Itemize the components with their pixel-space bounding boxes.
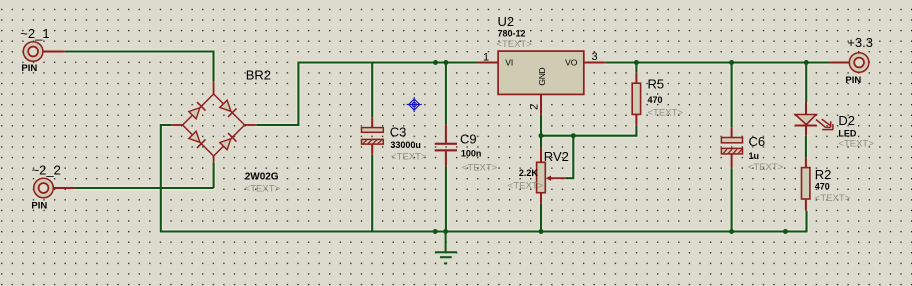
svg-text:<TEXT>: <TEXT> [648, 108, 684, 119]
svg-text:C3: C3 [390, 124, 407, 139]
svg-text:3: 3 [592, 51, 598, 63]
wire [65, 52, 214, 82]
svg-text:+3.3: +3.3 [847, 35, 873, 50]
svg-text:1: 1 [483, 52, 489, 64]
svg-text:1u: 1u [749, 151, 760, 161]
capacitor C9 [435, 124, 457, 166]
svg-text:C6: C6 [749, 134, 766, 149]
svg-text:<TEXT>: <TEXT> [245, 184, 281, 195]
svg-text:2.2K: 2.2K [519, 168, 539, 178]
wire [161, 125, 807, 232]
svg-text:<TEXT>: <TEXT> [496, 39, 532, 50]
pin ~2_2 [34, 178, 75, 198]
svg-text:100n: 100n [461, 148, 482, 158]
wire [541, 126, 636, 136]
wire [213, 162, 215, 188]
ground [435, 232, 457, 264]
resistor R5 [632, 72, 640, 125]
LED D2 [795, 102, 833, 136]
svg-text:C9: C9 [460, 132, 477, 147]
svg-text:780-12: 780-12 [498, 29, 526, 39]
svg-text:~2_1: ~2_1 [20, 26, 49, 41]
svg-text:<TEXT>: <TEXT> [508, 181, 544, 192]
wire [805, 63, 807, 103]
wire [445, 63, 447, 125]
wire [371, 63, 373, 118]
svg-text:<TEXT>: <TEXT> [462, 163, 498, 174]
junction [443, 229, 448, 234]
potentiometer RV2 [537, 148, 566, 204]
svg-text:RV2: RV2 [544, 149, 569, 164]
wire [540, 203, 542, 231]
svg-text:LED: LED [838, 128, 857, 138]
junction [433, 60, 438, 65]
junction [804, 60, 809, 65]
wire [731, 168, 733, 231]
svg-text:<TEXT>: <TEXT> [391, 152, 427, 163]
junction [783, 229, 788, 234]
wire [731, 63, 733, 128]
svg-text:<TEXT>: <TEXT> [748, 162, 784, 173]
svg-text:VI: VI [505, 57, 513, 67]
wire [566, 136, 573, 179]
wire [805, 136, 807, 157]
origin marker [407, 97, 422, 112]
svg-text:PIN: PIN [21, 63, 37, 74]
bridge rectifier BR2 [172, 81, 257, 162]
svg-text:D2: D2 [838, 113, 855, 128]
svg-text:U2: U2 [498, 14, 515, 29]
junction [634, 60, 639, 65]
capacitor C3 [362, 117, 384, 155]
junction [571, 133, 576, 138]
svg-text:BR2: BR2 [246, 68, 271, 83]
svg-text:470: 470 [648, 95, 663, 105]
svg-text:2W02G: 2W02G [245, 172, 279, 183]
wire [540, 115, 542, 148]
pin +3.3 [829, 53, 869, 73]
svg-text:470: 470 [815, 181, 830, 191]
junction [539, 229, 544, 234]
wire [606, 61, 829, 63]
pin ~2_1 [23, 42, 65, 62]
svg-text:VO: VO [565, 57, 578, 67]
svg-text:<TEXT>: <TEXT> [838, 138, 874, 149]
svg-text:R2: R2 [815, 167, 832, 182]
wire [75, 187, 214, 189]
svg-text:33000u: 33000u [390, 140, 421, 150]
svg-text:GND: GND [537, 67, 547, 85]
wire [635, 63, 637, 73]
resistor R2 [802, 157, 810, 211]
junction [443, 60, 448, 65]
junction [729, 229, 734, 234]
svg-text:<TEXT>: <TEXT> [815, 193, 851, 204]
wire [445, 166, 447, 231]
junction [729, 60, 734, 65]
svg-text:R5: R5 [648, 77, 665, 92]
svg-text:~2_2: ~2_2 [32, 163, 61, 178]
svg-text:PIN: PIN [31, 200, 47, 211]
regulator U2 780-12 [478, 51, 606, 115]
capacitor C6 [721, 127, 742, 168]
svg-text:2: 2 [529, 104, 541, 110]
wire [371, 155, 373, 232]
junction [433, 229, 438, 234]
wire [256, 63, 478, 126]
junction [539, 133, 544, 138]
svg-text:PIN: PIN [845, 75, 861, 86]
